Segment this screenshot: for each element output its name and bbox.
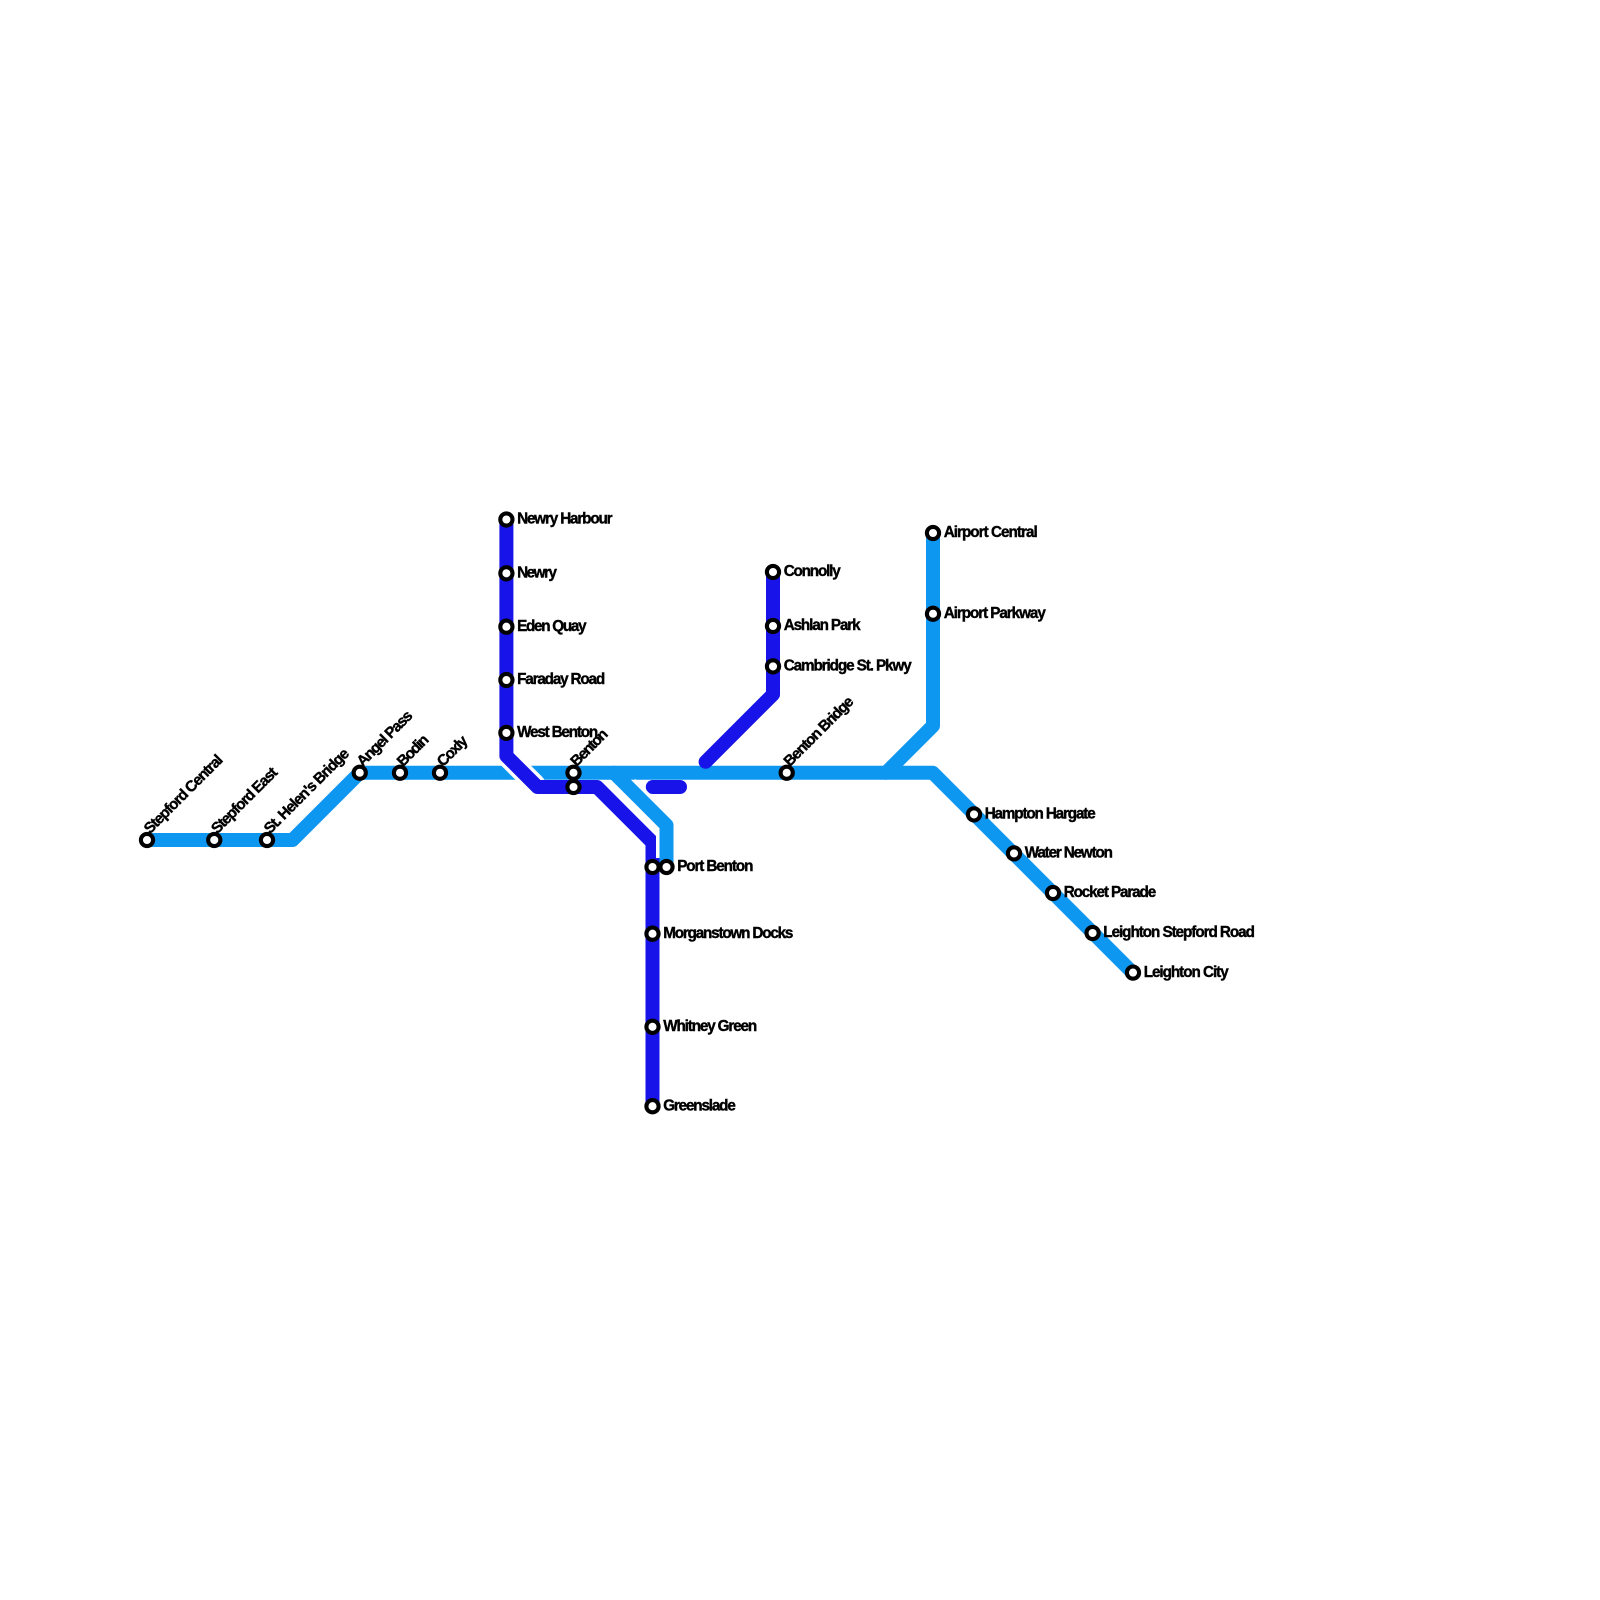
station: Angel Pass: [354, 767, 366, 779]
station: Benton lower circle: [567, 781, 579, 793]
svg-text:Port Benton: Port Benton: [677, 858, 753, 875]
svg-text:Hampton Hargate: Hampton Hargate: [985, 806, 1096, 823]
svg-text:Leighton City: Leighton City: [1144, 964, 1230, 981]
svg-text:Airport Central: Airport Central: [944, 524, 1038, 541]
station: Water Newton: [1008, 847, 1020, 859]
station: Port Benton dark circle: [646, 861, 658, 873]
station: Leighton City: [1127, 967, 1139, 979]
svg-text:Coxly: Coxly: [434, 732, 472, 770]
station: Stepford East: [208, 834, 220, 846]
svg-text:Whitney Green: Whitney Green: [663, 1018, 757, 1035]
station: Cambridge St. Pkwy: [767, 660, 779, 672]
station: Airport Parkway: [927, 608, 939, 620]
svg-text:Faraday Road: Faraday Road: [517, 671, 605, 688]
svg-text:Rocket Parade: Rocket Parade: [1064, 884, 1157, 901]
light blue line: main route Stepford Central to Leighton City: [147, 773, 1133, 973]
svg-text:Connolly: Connolly: [784, 563, 842, 580]
station: Airport Central: [927, 527, 939, 539]
svg-text:Cambridge St. Pkwy: Cambridge St. Pkwy: [784, 658, 913, 675]
svg-text:Ashlan Park: Ashlan Park: [784, 617, 861, 634]
svg-text:Newry: Newry: [517, 565, 557, 582]
light blue line: Port Benton branch: [614, 773, 667, 867]
station: Hampton Hargate: [968, 808, 980, 820]
station: Greenslade: [646, 1100, 658, 1112]
station: Coxly: [434, 767, 446, 779]
svg-text:Bodin: Bodin: [394, 731, 433, 770]
station: Whitney Green: [646, 1021, 658, 1033]
station: West Benton: [500, 727, 512, 739]
station: Bodin: [394, 767, 406, 779]
station: Newry: [500, 567, 512, 579]
svg-text:Benton Bridge: Benton Bridge: [781, 693, 858, 770]
dark blue line: Connolly branch dash segment east of Benton: [653, 780, 680, 794]
station: Leighton Stepford Road: [1087, 927, 1099, 939]
white casing: light blue Port Benton branch crossing: [628, 786, 667, 858]
station: Morganstown Docks: [646, 928, 658, 940]
station: Ashlan Park: [767, 620, 779, 632]
station: Faraday Road: [500, 674, 512, 686]
svg-text:Morganstown Docks: Morganstown Docks: [663, 925, 793, 942]
station: Connolly: [767, 566, 779, 578]
station: Rocket Parade: [1047, 887, 1059, 899]
dark blue line: Connolly branch diagonal and vertical: [706, 572, 773, 762]
svg-text:Airport Parkway: Airport Parkway: [944, 605, 1047, 622]
station: Benton upper circle: [567, 767, 579, 779]
station: Port Benton light circle: [660, 861, 672, 873]
svg-text:Newry Harbour: Newry Harbour: [517, 511, 613, 528]
svg-text:Leighton Stepford Road: Leighton Stepford Road: [1103, 924, 1255, 941]
station: Stepford Central: [141, 834, 153, 846]
dark blue line: Newry Harbour to Greenslade route: [506, 520, 652, 1107]
light blue line: Airport branch: [886, 533, 933, 773]
station: St. Helen's Bridge: [261, 834, 273, 846]
svg-text:Greenslade: Greenslade: [663, 1097, 736, 1114]
station: Newry Harbour: [500, 513, 512, 525]
station: Eden Quay: [500, 621, 512, 633]
white casing: dark line diagonal crossing near West Benton: [502, 751, 535, 784]
svg-text:Water Newton: Water Newton: [1025, 845, 1113, 862]
svg-text:West Benton: West Benton: [517, 724, 598, 741]
station: Benton Bridge: [781, 767, 793, 779]
svg-text:Eden Quay: Eden Quay: [517, 618, 587, 635]
